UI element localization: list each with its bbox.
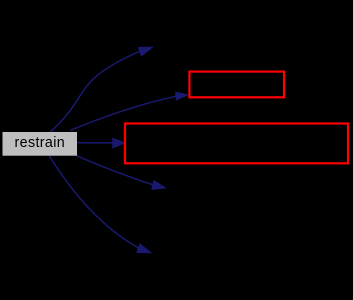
edge restrain->node3 (into big red box) — [77, 142, 114, 144]
arrowhead edge2 — [175, 90, 190, 101]
arrowhead edge3 — [112, 137, 126, 148]
edge restrain->node2 (into small red box) — [71, 96, 177, 130]
edge restrain->hidden1 (top arrow) — [51, 51, 142, 132]
node3 big red box (label invisible on black) — [125, 124, 348, 164]
node restrain (current node, grey) — [3, 132, 78, 156]
edge restrain->hidden4 (middle-low arrow) — [76, 155, 154, 185]
arrowhead edge1 — [138, 42, 156, 57]
arrowhead edge4 — [151, 180, 168, 194]
svg-text:restrain: restrain — [15, 135, 65, 151]
node2 small red box (label invisible on black) — [189, 72, 284, 98]
arrowhead edge5 — [136, 243, 154, 258]
edge restrain->hidden5 (bottom arrow) — [49, 156, 140, 249]
